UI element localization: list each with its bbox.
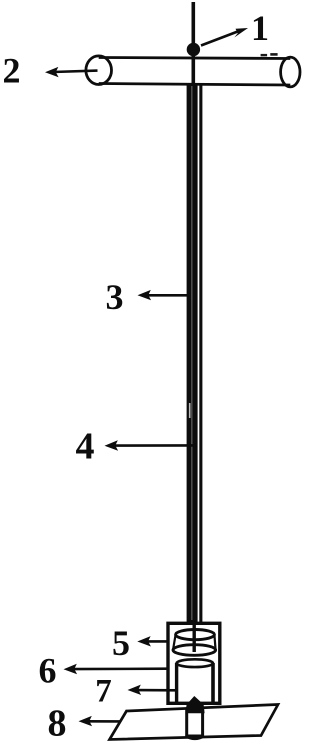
svg-text:4: 4 bbox=[76, 426, 95, 468]
handle right end cap ellipse bbox=[281, 57, 300, 87]
leader arrow 1 bbox=[201, 28, 248, 46]
leader arrow 6 bbox=[64, 664, 168, 674]
svg-text:3: 3 bbox=[106, 277, 124, 317]
spring upper ellipse (part 5) bbox=[176, 630, 215, 640]
leader arrow 8 bbox=[79, 716, 121, 726]
leader arrow 7 bbox=[128, 685, 177, 695]
svg-text:7: 7 bbox=[95, 674, 112, 710]
svg-text:5: 5 bbox=[112, 623, 130, 663]
blade plate (part 8) bbox=[110, 705, 279, 740]
solid tip triangle + collar bbox=[185, 696, 204, 713]
gearbox outer box bbox=[168, 623, 220, 703]
svg-text:2: 2 bbox=[3, 51, 21, 91]
handle bottom edge bbox=[99, 84, 291, 86]
svg-text:1: 1 bbox=[251, 8, 269, 48]
top stem line above handle bbox=[192, 2, 196, 84]
center stem inside box bbox=[192, 622, 195, 652]
handle left end cap ellipse bbox=[86, 56, 112, 85]
spring lower ellipse bbox=[173, 645, 216, 656]
shaft right line bbox=[199, 84, 202, 623]
pivot dot (part 1) bbox=[187, 43, 200, 56]
leader arrow 2 bbox=[45, 67, 98, 77]
leader arrow 4 bbox=[105, 440, 197, 450]
inner cup cylinder (part 7 target) bbox=[177, 659, 213, 702]
shaft light notch artifact bbox=[189, 403, 191, 418]
handle top edge bbox=[99, 58, 291, 59]
spring side connectors bbox=[173, 635, 176, 650]
svg-text:6: 6 bbox=[39, 651, 57, 691]
leader arrow 5 bbox=[137, 636, 166, 646]
shaft inner faint split bbox=[191, 86, 192, 620]
shaft left band (double line merged) bbox=[187, 84, 198, 623]
scan specks above handle right bbox=[261, 54, 268, 56]
bit cylinder below box bbox=[186, 710, 204, 738]
svg-text:8: 8 bbox=[48, 703, 67, 745]
leader arrow 3 bbox=[138, 290, 192, 300]
